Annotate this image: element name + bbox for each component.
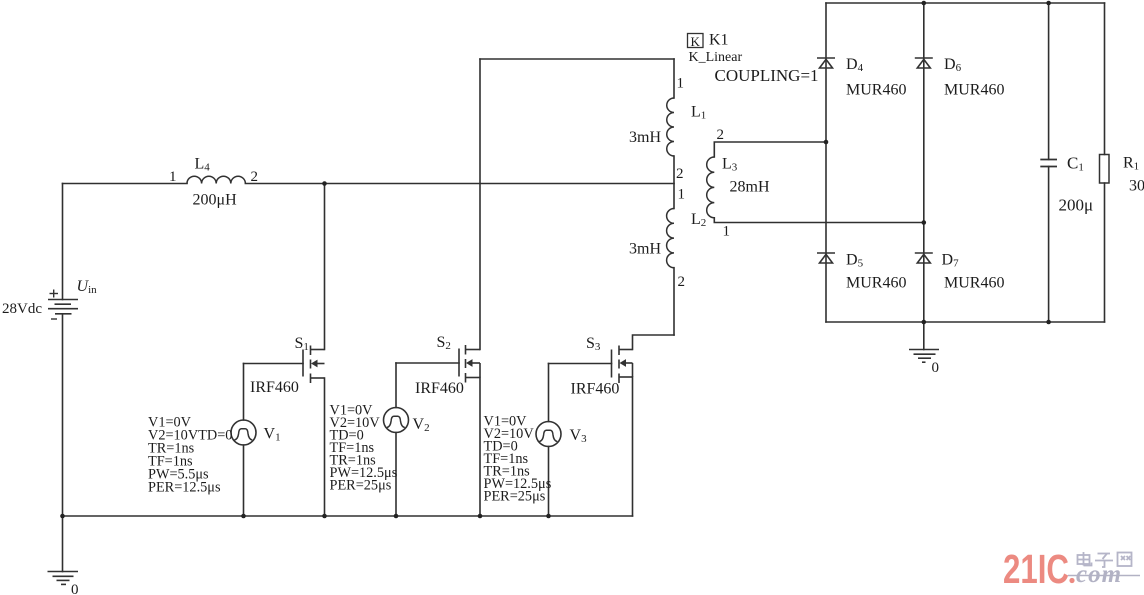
svg-text:1: 1 bbox=[677, 76, 685, 92]
svg-text:28Vdc: 28Vdc bbox=[2, 301, 42, 317]
param block V3 bbox=[484, 414, 552, 505]
diode D5 bbox=[817, 253, 835, 263]
node bridgebottom-C1 bbox=[1046, 320, 1051, 325]
svg-text:21IC: 21IC bbox=[1003, 546, 1069, 592]
source V3 pulse bbox=[539, 430, 557, 441]
diode D4 bbox=[817, 58, 835, 68]
svg-text:V3: V3 bbox=[570, 427, 588, 445]
wire battery bottom bbox=[62, 314, 64, 516]
node S1 drain-bus bbox=[322, 181, 327, 186]
wire bridge bottom bbox=[826, 321, 1105, 323]
ground left bbox=[48, 572, 79, 585]
transistor S3 arrow bbox=[620, 359, 627, 367]
wire C1 bottom bbox=[1048, 167, 1050, 323]
diode D7 bbox=[915, 253, 933, 263]
wire L3 top link bbox=[714, 142, 826, 157]
node L3top-bridge bbox=[824, 140, 829, 145]
svg-text:PER=12.5μs: PER=12.5μs bbox=[148, 480, 221, 496]
ground right bbox=[909, 350, 939, 363]
node bridgetop-C1 bbox=[1046, 1, 1051, 6]
wire S2 gate lead bbox=[396, 362, 459, 364]
svg-text:2: 2 bbox=[678, 274, 686, 290]
svg-text:1: 1 bbox=[678, 187, 686, 203]
coupling K1 box bbox=[688, 34, 704, 48]
node bridgebottom-gnd bbox=[922, 320, 927, 325]
wire S3 gate lead bbox=[549, 363, 612, 365]
wire battery top bbox=[62, 184, 64, 300]
svg-text:L3: L3 bbox=[722, 156, 738, 174]
svg-text:COUPLING=1: COUPLING=1 bbox=[715, 66, 819, 85]
svg-text:2: 2 bbox=[676, 166, 684, 182]
wire bottom rail bbox=[63, 515, 633, 517]
wire V1 top bbox=[243, 364, 245, 421]
svg-text:IRF460: IRF460 bbox=[250, 379, 299, 396]
wire V3 bottom bbox=[548, 447, 550, 517]
node rail-V3 bbox=[546, 514, 551, 519]
svg-text:D4: D4 bbox=[846, 56, 864, 74]
wire S3 source bbox=[632, 377, 634, 516]
wire top bus right bbox=[245, 183, 674, 185]
wire ground stem right bbox=[923, 322, 925, 350]
svg-text:D7: D7 bbox=[942, 252, 960, 270]
wire S1 gate lead bbox=[244, 363, 304, 365]
wire S1 drain bbox=[324, 184, 326, 350]
inductor L4 bbox=[187, 176, 245, 183]
svg-text:MUR460: MUR460 bbox=[846, 275, 906, 292]
wire S2 source bbox=[479, 378, 481, 517]
wire S3 drain jog bbox=[633, 335, 675, 350]
svg-text:S1: S1 bbox=[295, 335, 309, 353]
svg-text:K_Linear: K_Linear bbox=[689, 50, 743, 65]
svg-text:K1: K1 bbox=[709, 32, 729, 49]
inductor L2 bbox=[667, 208, 674, 267]
wire bridge left vertical bbox=[825, 3, 827, 322]
node bridgetop-D6 bbox=[922, 1, 927, 6]
wire bridge right vertical bbox=[923, 3, 925, 322]
watermark red dot bbox=[1069, 578, 1074, 583]
svg-text:IRF460: IRF460 bbox=[571, 381, 620, 398]
battery minus sign bbox=[51, 318, 57, 320]
svg-text:PER=25μs: PER=25μs bbox=[330, 478, 392, 494]
node rail-S1 bbox=[322, 514, 327, 519]
wire V1 bottom bbox=[243, 445, 245, 516]
svg-text:200μH: 200μH bbox=[193, 192, 238, 209]
svg-text:IRF460: IRF460 bbox=[415, 380, 464, 397]
capacitor C1 bbox=[1040, 160, 1057, 167]
svg-text:3mH: 3mH bbox=[629, 241, 661, 258]
node rail-V1 bbox=[241, 514, 246, 519]
svg-text:2: 2 bbox=[717, 127, 725, 143]
param block V1 bbox=[148, 415, 232, 496]
node dots bbox=[60, 1, 1051, 519]
svg-text:C1: C1 bbox=[1067, 154, 1084, 174]
svg-text:1: 1 bbox=[723, 224, 731, 240]
watermark 电子网 bbox=[1078, 552, 1132, 567]
svg-text:L4: L4 bbox=[195, 156, 211, 174]
svg-text:com: com bbox=[1076, 561, 1122, 588]
wire L3 bottom link bbox=[714, 218, 924, 223]
svg-text:2: 2 bbox=[251, 169, 259, 185]
wire L1 top stub bbox=[673, 59, 675, 98]
svg-text:1: 1 bbox=[169, 169, 177, 185]
svg-text:MUR460: MUR460 bbox=[944, 82, 1004, 99]
svg-text:MUR460: MUR460 bbox=[846, 82, 906, 99]
inductor L1 bbox=[667, 98, 674, 156]
svg-text:30: 30 bbox=[1129, 178, 1144, 195]
svg-text:D6: D6 bbox=[944, 56, 962, 74]
source V3 circle bbox=[536, 422, 561, 447]
node rail-V2 bbox=[394, 514, 399, 519]
transistor S1 arrow bbox=[311, 360, 318, 368]
wire top bus left bbox=[63, 183, 188, 185]
svg-text:3mH: 3mH bbox=[629, 129, 661, 146]
wire top link to L1 bbox=[480, 58, 674, 60]
transistor Q S3 bbox=[612, 346, 633, 384]
wire L2 bottom stub bbox=[673, 268, 675, 335]
svg-text:K: K bbox=[691, 34, 701, 49]
svg-text:0: 0 bbox=[932, 360, 940, 376]
wire ground stem left bbox=[62, 516, 64, 572]
svg-text:S2: S2 bbox=[437, 334, 451, 352]
source V1 pulse bbox=[234, 429, 252, 440]
wire R1 top bbox=[1104, 3, 1106, 155]
transistor Q S1 bbox=[303, 346, 325, 384]
svg-text:0: 0 bbox=[71, 582, 79, 595]
wire R1 bottom bbox=[1104, 183, 1106, 322]
wire S1 source bbox=[324, 378, 326, 516]
wire V2 top bbox=[395, 363, 397, 408]
node rail-S2 bbox=[478, 514, 483, 519]
param block V2 bbox=[330, 403, 398, 494]
transistor Q S2 bbox=[459, 345, 480, 383]
inductor L3 bbox=[707, 157, 715, 218]
diode D6 bbox=[915, 58, 933, 68]
source V1 circle bbox=[231, 420, 256, 445]
svg-text:V2: V2 bbox=[413, 416, 430, 434]
node rail-battery bbox=[60, 514, 65, 519]
wire V3 top bbox=[548, 364, 550, 422]
watermark strike line bbox=[1068, 575, 1140, 577]
source V2 circle bbox=[384, 408, 409, 433]
wire C1 top bbox=[1048, 3, 1050, 160]
wire V2 bottom bbox=[395, 433, 397, 517]
svg-text:S3: S3 bbox=[586, 335, 601, 353]
resistor R1 bbox=[1100, 155, 1110, 184]
svg-text:D5: D5 bbox=[846, 252, 864, 270]
transistor S2 arrow bbox=[466, 359, 473, 367]
svg-text:PER=25μs: PER=25μs bbox=[484, 489, 546, 505]
source V2 pulse bbox=[387, 416, 405, 427]
svg-text:200μ: 200μ bbox=[1059, 196, 1094, 215]
svg-text:L2: L2 bbox=[691, 211, 706, 229]
wire bridge top bbox=[826, 2, 1105, 4]
svg-text:L1: L1 bbox=[691, 104, 706, 122]
battery V_in bbox=[48, 300, 78, 314]
battery plus sign bbox=[50, 290, 59, 320]
svg-text:MUR460: MUR460 bbox=[944, 275, 1004, 292]
svg-text:Uin: Uin bbox=[77, 278, 98, 296]
node L3bottom-bridge bbox=[922, 220, 927, 225]
svg-text:R1: R1 bbox=[1123, 155, 1139, 173]
wire S2 drain riser bbox=[479, 59, 481, 350]
svg-text:28mH: 28mH bbox=[730, 179, 770, 196]
wire L1-L2 center bbox=[673, 156, 675, 209]
svg-text:V1: V1 bbox=[264, 426, 281, 444]
